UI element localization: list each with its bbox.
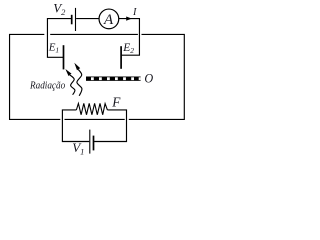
battery V2 long plate xyxy=(75,8,77,31)
resistor F zigzag xyxy=(76,103,107,114)
wire inner rect right: top edge, right edge, bottom edge to battery xyxy=(94,110,126,142)
wire outer loop right: top-right corner, right side, bottom-right corner xyxy=(129,34,185,119)
svg-text:O: O xyxy=(144,72,153,86)
radiation wavy arrow 2 xyxy=(74,63,82,96)
wire outer top middle segment between crossover gaps xyxy=(50,33,138,35)
svg-text:I: I xyxy=(132,7,137,18)
current arrow I xyxy=(126,17,132,21)
electrode E1 plate xyxy=(63,45,65,69)
radiation wavy arrow 1 xyxy=(65,69,75,95)
battery V1 short plate xyxy=(93,136,95,151)
wire ammeter to top-right corner, down to E2 wire, left to E2 plate xyxy=(119,19,140,56)
wire inner rect left: top-left corner, left edge, bottom edge to battery xyxy=(62,110,89,142)
ammeter U1 circle xyxy=(99,9,119,29)
wire outer bottom middle segment between crossover gaps xyxy=(65,118,125,120)
electrode E2 plate xyxy=(120,46,122,69)
battery V2 short plate xyxy=(71,15,73,24)
wire top branch: corner above E1 down to E1 plate xyxy=(47,19,71,58)
svg-text:F: F xyxy=(111,94,121,109)
battery V1 long plate xyxy=(89,130,91,154)
svg-text:A: A xyxy=(103,12,114,28)
wire battery V2 to ammeter xyxy=(76,18,99,20)
wire outer loop left: top-left corner, left side, bottom-left corner xyxy=(10,34,61,119)
svg-text:Radiação: Radiação xyxy=(29,81,65,92)
plate O (dashed grid) xyxy=(86,77,141,81)
